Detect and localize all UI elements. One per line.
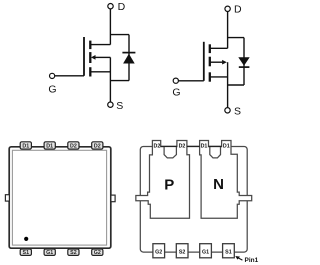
svg-text:G2: G2 (94, 250, 101, 256)
svg-text:Pin1: Pin1 (245, 257, 259, 264)
svg-text:D: D (118, 1, 126, 13)
svg-text:S2: S2 (179, 249, 186, 255)
svg-text:D2: D2 (154, 143, 161, 149)
svg-text:S2: S2 (70, 250, 77, 256)
svg-text:D2: D2 (179, 143, 186, 149)
svg-text:D2: D2 (70, 143, 77, 149)
svg-text:G1: G1 (46, 250, 53, 256)
svg-text:D: D (234, 4, 242, 16)
svg-text:G1: G1 (202, 249, 209, 255)
svg-text:G: G (48, 83, 56, 95)
svg-text:S1: S1 (225, 249, 232, 255)
svg-text:G: G (172, 86, 180, 98)
svg-text:S: S (234, 106, 241, 118)
svg-text:S: S (116, 100, 123, 112)
svg-text:G2: G2 (155, 249, 162, 255)
svg-text:D1: D1 (201, 143, 208, 149)
svg-text:S1: S1 (23, 250, 30, 256)
svg-text:D2: D2 (94, 143, 101, 149)
svg-text:D1: D1 (223, 143, 230, 149)
svg-text:D1: D1 (22, 143, 29, 149)
svg-text:P: P (164, 177, 174, 194)
svg-text:N: N (213, 176, 224, 193)
svg-text:D1: D1 (46, 143, 53, 149)
